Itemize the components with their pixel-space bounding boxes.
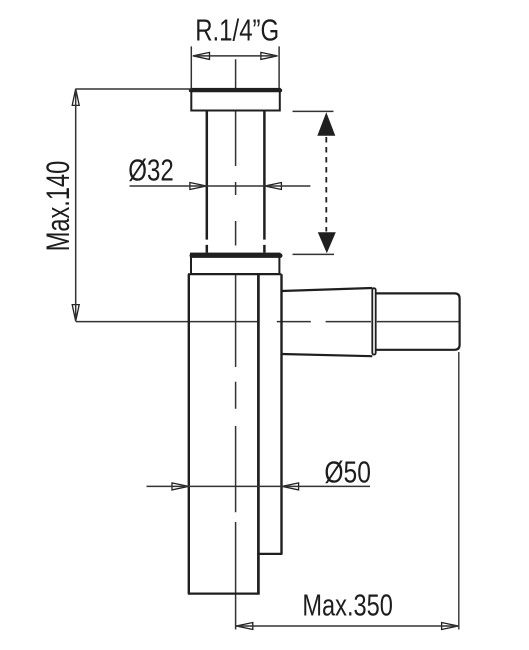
svg-text:Max.350: Max.350 xyxy=(302,589,393,623)
dimension diameter 50 xyxy=(147,456,371,490)
horizontal outlet centerline / Max.140 bottom extension xyxy=(76,321,459,323)
dimension R.1/4"G xyxy=(191,14,279,89)
inlet pipe xyxy=(207,111,265,253)
outlet cone top xyxy=(282,288,373,291)
inner tube line xyxy=(257,274,260,593)
body top edge xyxy=(188,273,282,275)
top flange xyxy=(191,89,281,111)
nut xyxy=(191,254,280,274)
svg-text:Ø50: Ø50 xyxy=(324,456,371,490)
body right wall xyxy=(280,274,282,554)
extension line right (outlet end down to Max.350) xyxy=(458,352,460,630)
body left wall xyxy=(188,274,190,593)
dashed height arrow xyxy=(293,111,336,254)
outlet small pipe xyxy=(376,293,460,349)
dimension diameter 32 xyxy=(128,154,310,190)
svg-text:Ø32: Ø32 xyxy=(128,154,174,188)
outlet cone bottom xyxy=(282,354,373,356)
dimension Max.140 xyxy=(40,89,192,321)
shell step bottom xyxy=(257,553,282,555)
svg-text:R.1/4”G: R.1/4”G xyxy=(195,14,279,48)
outlet cap ring xyxy=(372,288,375,354)
main vertical centerline xyxy=(235,59,237,629)
dimension Max.350 xyxy=(236,589,458,630)
svg-text:Max.140: Max.140 xyxy=(40,161,76,252)
cup bottom xyxy=(188,592,260,594)
